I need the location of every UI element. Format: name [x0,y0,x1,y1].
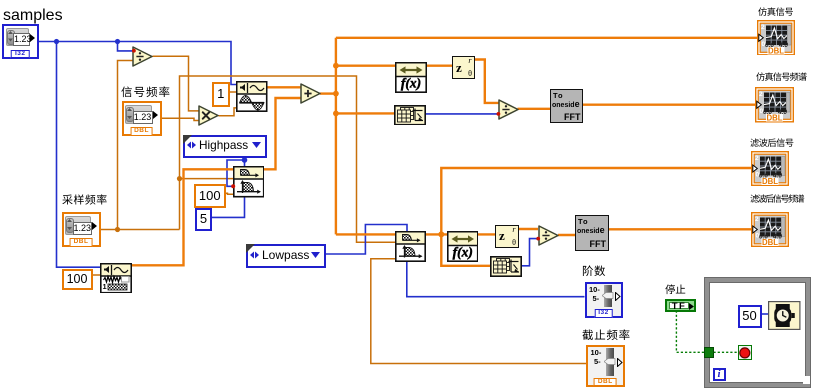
svg-text:DBL: DBL [768,46,784,55]
svg-text:2: 2 [759,91,763,98]
svg-text:2: 2 [755,155,759,162]
svg-text:DBL: DBL [766,114,782,123]
svg-text:DBL: DBL [762,177,778,186]
svg-text:2: 2 [761,24,765,31]
svg-text:1: 1 [102,282,106,291]
svg-text:f(x): f(x) [400,75,420,90]
svg-text:2: 2 [755,216,759,223]
svg-text:f(x): f(x) [452,245,472,260]
svg-text:DBL: DBL [761,238,777,247]
